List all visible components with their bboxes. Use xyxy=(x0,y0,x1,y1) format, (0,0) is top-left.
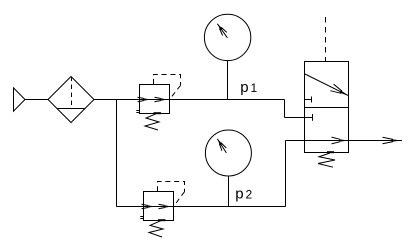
regulator R1 spring xyxy=(145,114,159,130)
regulator R2 pilot dashed diagonal xyxy=(174,192,185,207)
flow arrow 1 in regulator R2 xyxy=(142,204,155,208)
wire regulator R2 to riser xyxy=(174,206,286,208)
filter F1 element chord xyxy=(57,108,85,110)
wire riser to valve port xyxy=(286,140,305,142)
regulator R1 spring anchor xyxy=(154,112,162,114)
valve V1 pilot dashed line xyxy=(325,17,327,62)
regulator R1 pilot dashed line xyxy=(154,75,181,86)
regulator R1 pilot dashed diagonal xyxy=(170,85,181,99)
wire jog down xyxy=(284,100,286,118)
valve V1 bottom blocked port xyxy=(305,114,313,121)
wire source to filter xyxy=(25,99,48,101)
regulator R1 flow line xyxy=(140,99,170,101)
valve V1 straight flow path xyxy=(305,140,349,142)
gauge G1 stem wire xyxy=(227,61,229,100)
wire branch to regulator R2 xyxy=(117,206,144,208)
gauge G2 stem wire xyxy=(228,176,230,207)
gauge G1 needle arrowhead xyxy=(217,24,226,36)
valve V1 straight flow arrowhead xyxy=(332,137,349,144)
filter F1 dashed center line xyxy=(71,77,73,109)
regulator R2 body xyxy=(144,192,174,221)
node branch junction xyxy=(116,100,118,207)
regulator R2 spring anchor xyxy=(158,219,166,221)
valve V1 diagonal flow arrowhead xyxy=(330,84,348,96)
flow arrow 1 in regulator R1 xyxy=(138,97,151,101)
flow arrow 2 in regulator R2 xyxy=(159,204,172,208)
compressed air source triangle xyxy=(14,88,26,111)
regulator R2 relief vent ticks xyxy=(140,217,143,219)
output line arrowhead xyxy=(383,137,403,144)
gauge G1 needle shaft xyxy=(217,24,227,38)
valve V1 top blocked port xyxy=(305,97,312,103)
wire riser up xyxy=(285,141,287,207)
valve V1 diagonal flow path xyxy=(305,74,349,96)
gauge G2 body xyxy=(205,130,251,176)
wire regulator R1 to valve jog xyxy=(170,99,285,101)
regulator R2 pilot dashed line xyxy=(158,182,185,192)
regulator R2 spring xyxy=(149,221,163,237)
output wire xyxy=(349,140,403,142)
valve V1 spring anchor xyxy=(327,151,334,153)
regulator R2 flow line xyxy=(144,206,174,208)
gauge G1 body xyxy=(204,14,250,60)
wire jog to valve port xyxy=(285,117,313,119)
flow arrow 2 in regulator R1 xyxy=(155,97,168,101)
filter F1 body xyxy=(48,77,94,123)
regulator R1 body xyxy=(140,85,170,114)
wire filter to regulator R1 xyxy=(94,99,140,101)
valve V1 return spring xyxy=(318,153,335,167)
gauge G2 needle shaft xyxy=(217,139,226,153)
gauge G2 needle arrowhead xyxy=(217,139,226,151)
regulator R1 relief vent ticks xyxy=(136,111,139,113)
valve V1 body xyxy=(305,62,349,153)
valve V1 position divider xyxy=(305,107,349,109)
